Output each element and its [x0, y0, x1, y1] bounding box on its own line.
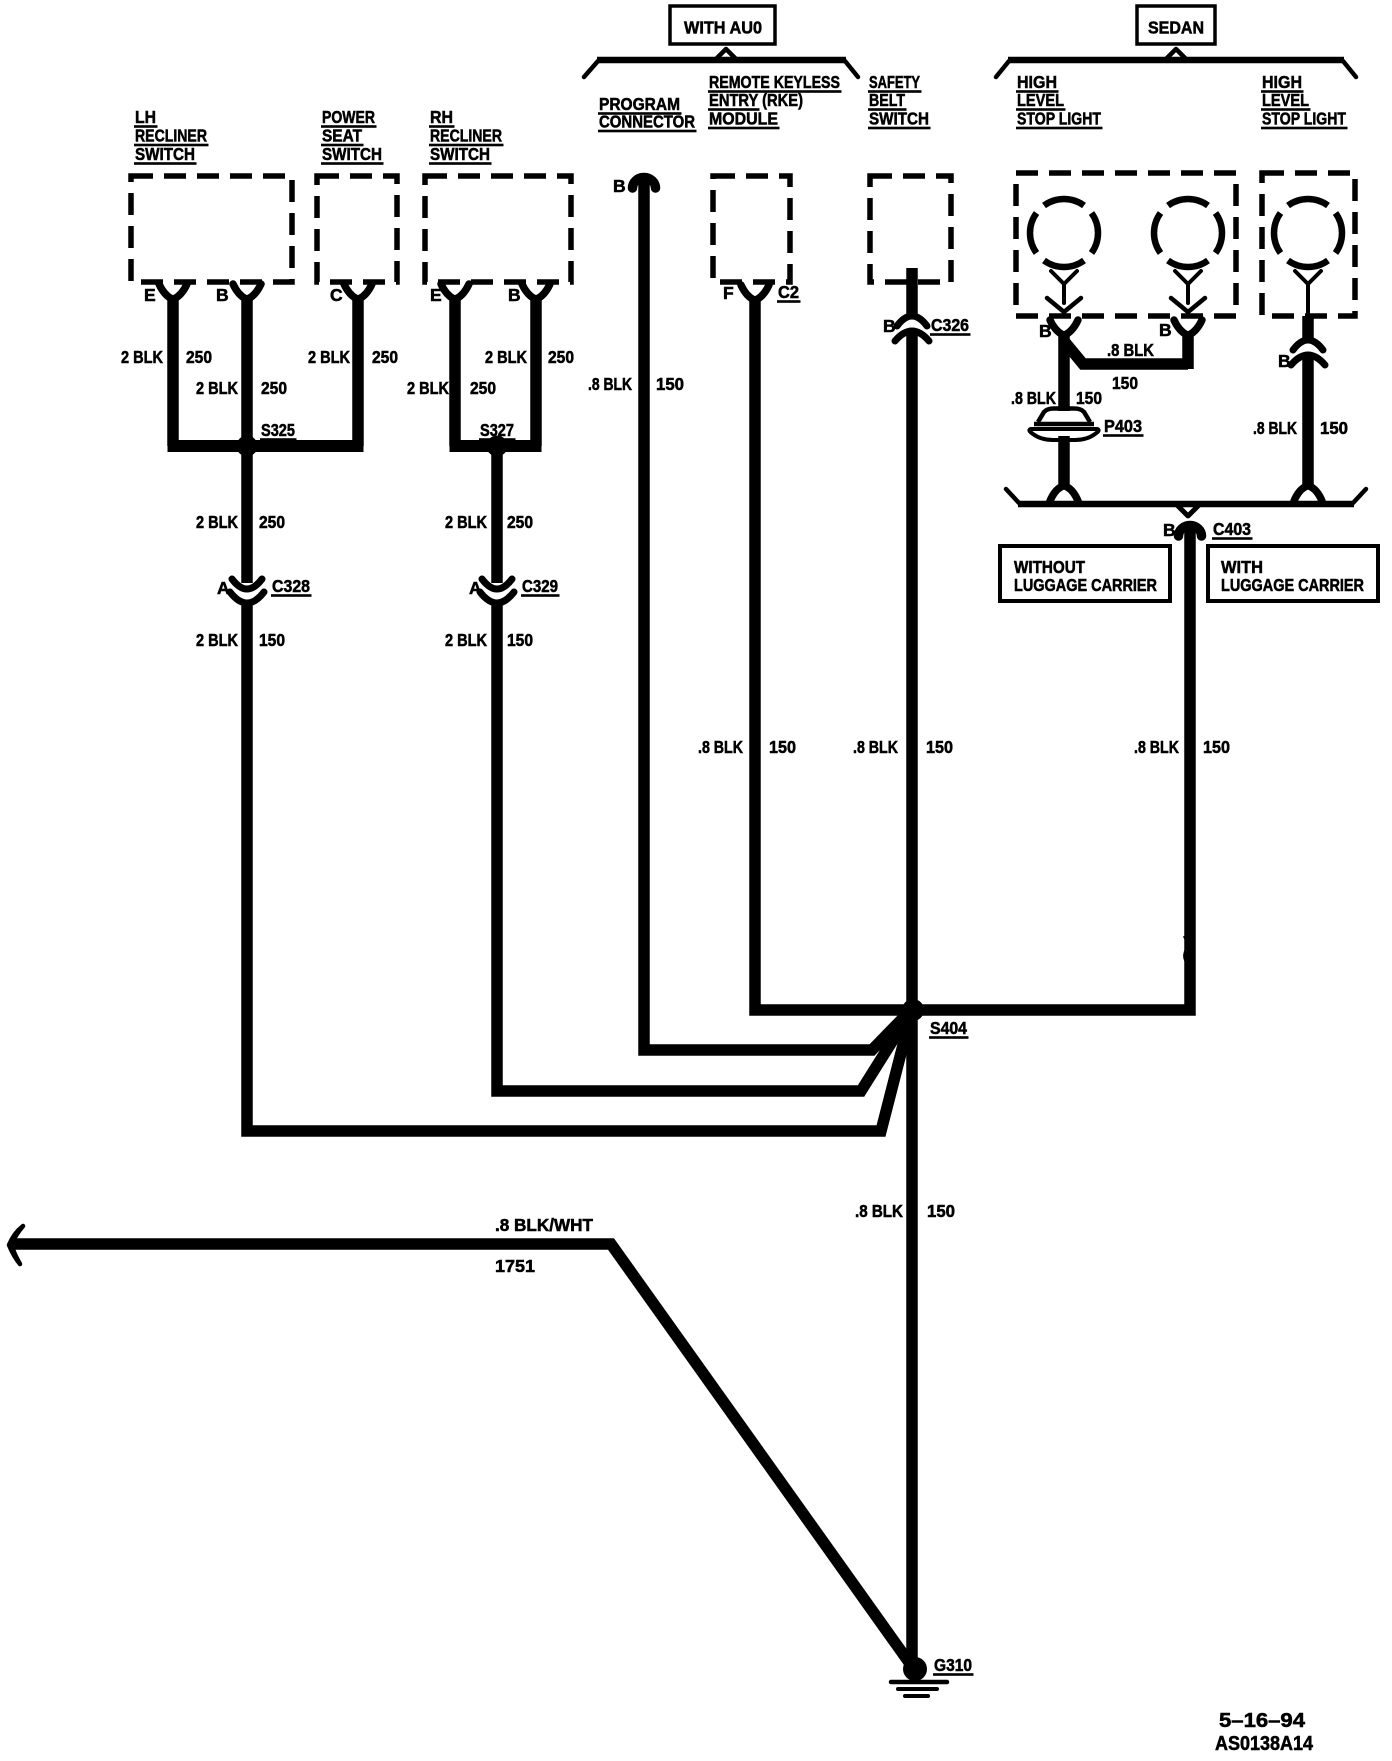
- svg-text:SEDAN: SEDAN: [1148, 18, 1204, 38]
- svg-text:LH: LH: [135, 107, 156, 127]
- svg-text:2 BLK: 2 BLK: [121, 347, 163, 367]
- svg-text:150: 150: [926, 737, 953, 757]
- svg-text:2 BLK: 2 BLK: [196, 378, 238, 398]
- svg-text:REMOTE KEYLESS: REMOTE KEYLESS: [709, 72, 840, 92]
- svg-text:SAFETY: SAFETY: [869, 72, 920, 92]
- svg-text:S327: S327: [480, 420, 514, 440]
- svg-text:S404: S404: [930, 1018, 967, 1038]
- svg-text:A: A: [469, 578, 482, 598]
- svg-text:ENTRY (RKE): ENTRY (RKE): [709, 90, 803, 110]
- svg-text:.8 BLK: .8 BLK: [1011, 388, 1056, 408]
- svg-text:MODULE: MODULE: [709, 109, 778, 129]
- svg-text:250: 250: [548, 347, 574, 367]
- svg-text:STOP LIGHT: STOP LIGHT: [1017, 109, 1101, 129]
- svg-text:WITHOUT: WITHOUT: [1014, 557, 1085, 577]
- svg-text:150: 150: [1076, 388, 1102, 408]
- svg-text:250: 250: [186, 347, 212, 367]
- svg-text:WITH AU0: WITH AU0: [684, 18, 762, 38]
- svg-text:.8 BLK: .8 BLK: [698, 737, 743, 757]
- svg-text:SWITCH: SWITCH: [135, 144, 195, 164]
- svg-text:2 BLK: 2 BLK: [196, 630, 238, 650]
- svg-text:2 BLK: 2 BLK: [445, 512, 487, 532]
- svg-text:SWITCH: SWITCH: [869, 109, 929, 129]
- svg-text:E: E: [430, 285, 442, 305]
- svg-text:STOP LIGHT: STOP LIGHT: [1262, 109, 1346, 129]
- svg-text:HIGH: HIGH: [1017, 72, 1057, 92]
- svg-text:B: B: [1163, 520, 1176, 540]
- svg-text:LUGGAGE CARRIER: LUGGAGE CARRIER: [1221, 575, 1364, 595]
- svg-text:POWER: POWER: [322, 107, 375, 127]
- svg-text:C328: C328: [272, 576, 310, 596]
- svg-text:B: B: [1159, 320, 1172, 340]
- svg-text:B: B: [1278, 351, 1291, 371]
- svg-text:C: C: [330, 285, 343, 305]
- svg-text:150: 150: [656, 374, 684, 394]
- svg-text:.8 BLK/WHT: .8 BLK/WHT: [495, 1215, 593, 1235]
- svg-text:250: 250: [470, 378, 496, 398]
- svg-text:250: 250: [372, 347, 398, 367]
- svg-text:150: 150: [259, 630, 285, 650]
- svg-text:1751: 1751: [495, 1256, 535, 1276]
- svg-text:150: 150: [1112, 373, 1138, 393]
- svg-text:2 BLK: 2 BLK: [308, 347, 350, 367]
- svg-text:LEVEL: LEVEL: [1262, 90, 1309, 110]
- svg-text:RH: RH: [430, 107, 453, 127]
- svg-text:AS0138A14: AS0138A14: [1215, 1733, 1314, 1755]
- svg-text:150: 150: [769, 737, 796, 757]
- svg-text:250: 250: [261, 378, 287, 398]
- svg-text:.8 BLK: .8 BLK: [1107, 340, 1154, 360]
- svg-text:RECLINER: RECLINER: [430, 126, 502, 146]
- svg-text:SEAT: SEAT: [322, 126, 362, 146]
- svg-text:150: 150: [507, 630, 533, 650]
- svg-text:BELT: BELT: [869, 90, 905, 110]
- svg-text:.8 BLK: .8 BLK: [855, 1201, 903, 1221]
- svg-text:2 BLK: 2 BLK: [407, 378, 449, 398]
- svg-text:.8 BLK: .8 BLK: [1253, 418, 1297, 438]
- svg-text:WITH: WITH: [1221, 557, 1263, 577]
- svg-text:B: B: [216, 285, 229, 305]
- svg-text:E: E: [144, 285, 156, 305]
- svg-text:2 BLK: 2 BLK: [445, 630, 487, 650]
- svg-text:.8 BLK: .8 BLK: [853, 737, 898, 757]
- svg-text:C326: C326: [931, 315, 969, 335]
- svg-text:150: 150: [1320, 418, 1348, 438]
- svg-text:C2: C2: [778, 282, 799, 302]
- svg-text:LUGGAGE CARRIER: LUGGAGE CARRIER: [1014, 575, 1157, 595]
- svg-text:B: B: [883, 316, 896, 336]
- svg-text:P403: P403: [1104, 416, 1142, 436]
- svg-text:C329: C329: [522, 576, 558, 596]
- svg-text:G310: G310: [934, 1655, 972, 1675]
- svg-text:SWITCH: SWITCH: [322, 144, 382, 164]
- svg-text:SWITCH: SWITCH: [430, 144, 490, 164]
- svg-text:S325: S325: [261, 420, 295, 440]
- svg-text:A: A: [217, 578, 230, 598]
- svg-text:RECLINER: RECLINER: [135, 126, 207, 146]
- svg-text:5–16–94: 5–16–94: [1219, 1710, 1306, 1732]
- svg-text:.8 BLK: .8 BLK: [1134, 737, 1179, 757]
- svg-text:B: B: [508, 285, 521, 305]
- svg-text:2 BLK: 2 BLK: [485, 347, 527, 367]
- svg-text:2 BLK: 2 BLK: [196, 512, 238, 532]
- svg-text:150: 150: [1203, 737, 1230, 757]
- svg-text:.8 BLK: .8 BLK: [588, 374, 632, 394]
- svg-text:F: F: [723, 283, 734, 303]
- svg-text:HIGH: HIGH: [1262, 72, 1302, 92]
- svg-text:B: B: [613, 176, 626, 196]
- svg-text:CONNECTOR: CONNECTOR: [599, 112, 695, 132]
- svg-text:150: 150: [927, 1201, 955, 1221]
- svg-text:250: 250: [507, 512, 533, 532]
- svg-text:250: 250: [259, 512, 285, 532]
- svg-text:LEVEL: LEVEL: [1017, 90, 1064, 110]
- svg-text:C403: C403: [1213, 519, 1251, 539]
- svg-text:B: B: [1039, 321, 1052, 341]
